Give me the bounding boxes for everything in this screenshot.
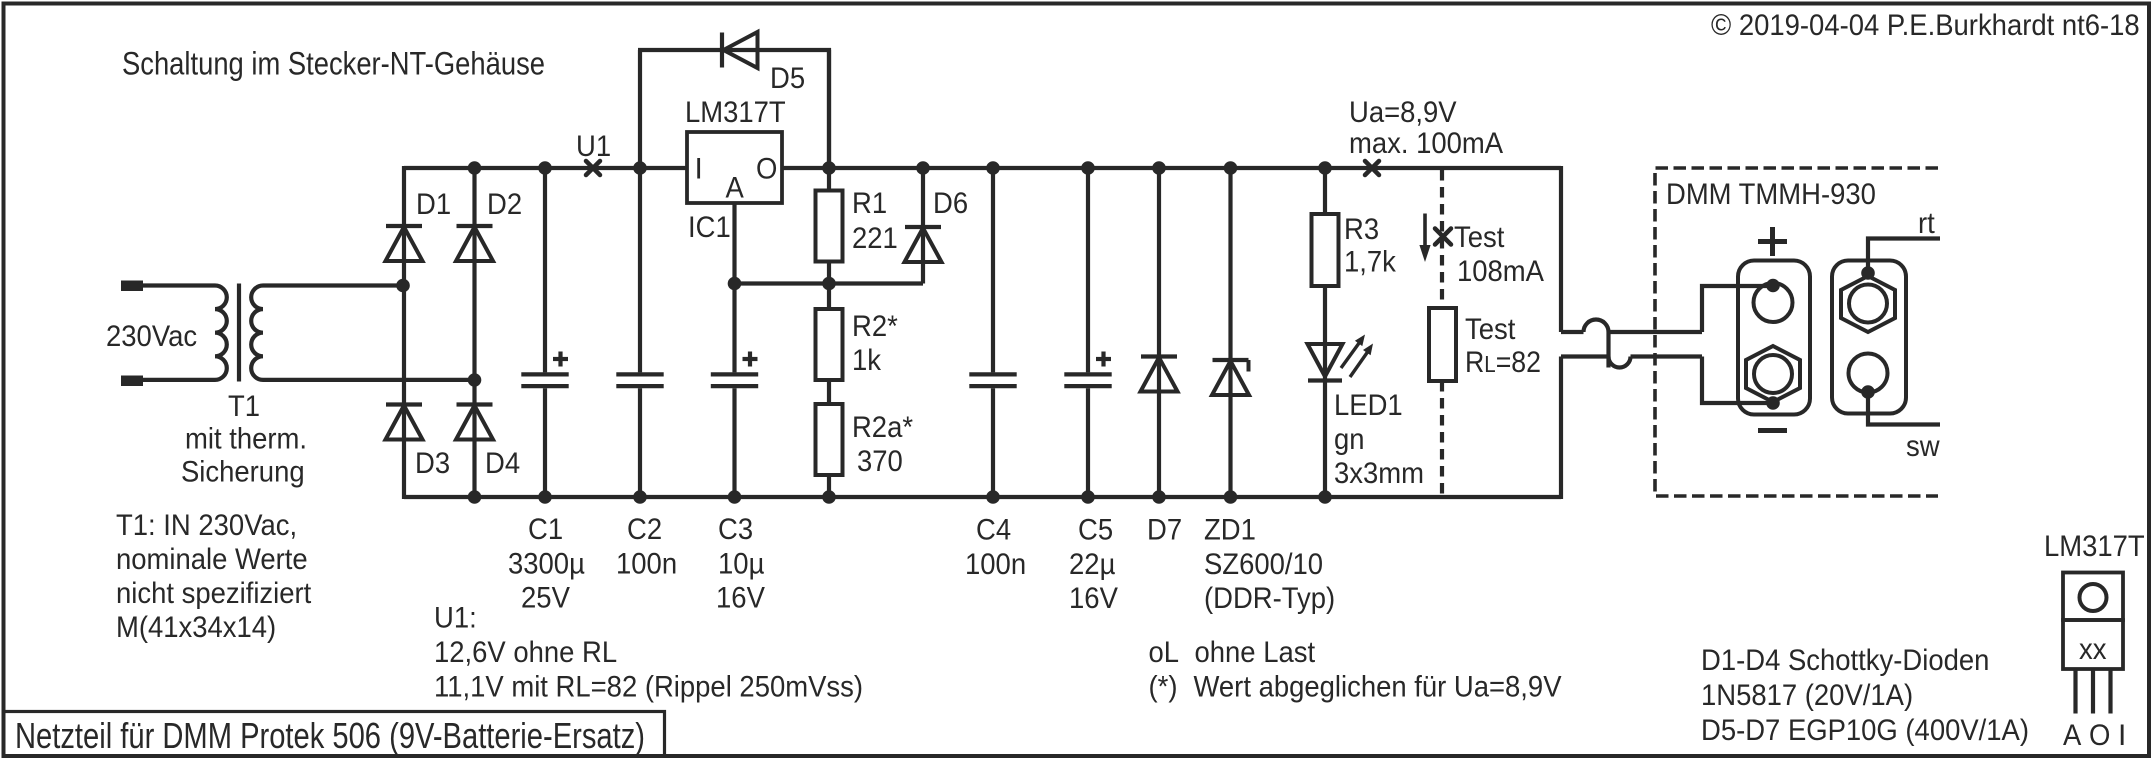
value C5 voltage: [1069, 582, 1118, 615]
zener diode ZD1: [1212, 360, 1249, 395]
wire C4 top: [991, 168, 995, 372]
pin label A (adjust): [726, 172, 744, 205]
resistor RL test load: [1429, 308, 1456, 381]
pin label O (output): [756, 153, 777, 186]
resistor R3: [1312, 214, 1339, 286]
junction R1/R2 ADJ node: [822, 277, 836, 291]
value C3 capacity: [718, 548, 764, 581]
note T1 spec line3: [116, 577, 312, 610]
junction C1 bottom rail: [538, 490, 552, 504]
svg-text:Sicherung: Sicherung: [181, 456, 305, 489]
svg-text:Netzteil für DMM Protek 506 (9: Netzteil für DMM Protek 506 (9V-Batterie…: [15, 715, 645, 756]
plug pair right body: [1832, 261, 1906, 414]
label Ua current: [1349, 127, 1503, 160]
label + polarity: [1758, 227, 1787, 256]
svg-text:Schaltung im Stecker-NT-Gehäus: Schaltung im Stecker-NT-Gehäuse: [122, 46, 545, 82]
svg-text:IC1: IC1: [688, 211, 731, 244]
svg-text:O: O: [2089, 719, 2110, 752]
plug right bottom socket: [1849, 354, 1888, 393]
svg-text:221: 221: [852, 222, 898, 255]
svg-text:Wert abgeglichen für Ua=8,9V: Wert abgeglichen für Ua=8,9V: [1194, 671, 1562, 704]
svg-text:A: A: [726, 172, 744, 205]
note U1 line3: [434, 671, 863, 704]
note U1 line1: [434, 602, 477, 635]
LED LED1 emission arrow 1: [1341, 335, 1365, 369]
svg-text:R2a*: R2a*: [852, 411, 913, 444]
twist crossing link: [1606, 332, 1610, 368]
wire - lead lower right: [1631, 354, 1703, 358]
svg-text:1N5817 (20V/1A): 1N5817 (20V/1A): [1701, 679, 1913, 712]
svg-text:Ua=8,9V: Ua=8,9V: [1349, 96, 1457, 129]
svg-text:O: O: [756, 153, 777, 186]
capacitor C3: [711, 352, 758, 387]
plug right top nut: [1841, 276, 1895, 332]
value R2: [852, 344, 882, 377]
wire D2-D4 branch: [472, 166, 476, 499]
wire D7 branch: [1157, 166, 1161, 499]
svg-text:LED1: LED1: [1334, 389, 1403, 422]
test branch dashed wire top: [1440, 170, 1444, 308]
diode D6: [905, 227, 942, 262]
pin label A (package): [2063, 719, 2081, 752]
junction C2 top rail: [633, 161, 647, 175]
svg-text:max. 100mA: max. 100mA: [1349, 127, 1503, 160]
note diodes line3: [1701, 714, 2029, 747]
LM317T package tab: [2063, 573, 2123, 621]
mains input terminal bottom: [121, 376, 143, 387]
svg-text:230Vac: 230Vac: [106, 320, 197, 353]
DMM enclosure dashed box: [1655, 168, 1938, 496]
label DMM TMMH-930: [1666, 178, 1876, 211]
label LM317T: [685, 96, 786, 129]
wire D5 horizontal: [638, 48, 831, 52]
junction LED1 bottom rail: [1318, 490, 1332, 504]
svg-text:16V: 16V: [1069, 582, 1118, 615]
svg-text:D4: D4: [485, 447, 520, 480]
junction C5 top rail: [1081, 161, 1095, 175]
svg-text:C2: C2: [627, 513, 662, 546]
twist hop lower arc: [1609, 357, 1631, 368]
capacitor C2: [616, 374, 663, 386]
diode D4: [456, 405, 493, 440]
wire C1 top: [543, 168, 547, 372]
wire - lead lower left: [1561, 354, 1609, 358]
junction ZD1 top rail: [1224, 161, 1238, 175]
svg-text:U1:: U1:: [434, 602, 477, 635]
LM317T package hole: [2080, 584, 2107, 611]
svg-text:108mA: 108mA: [1457, 255, 1544, 288]
svg-text:3300µ: 3300µ: [508, 548, 585, 581]
wire sw lead: [1868, 392, 1940, 425]
svg-text:1k: 1k: [852, 344, 882, 377]
resistor R2: [816, 309, 843, 380]
wire - lead to plug: [1702, 357, 1773, 404]
plug right top socket: [1849, 285, 1887, 323]
value LED1 size: [1334, 457, 1424, 490]
value R3: [1344, 246, 1397, 279]
wire D6 branch: [921, 166, 925, 284]
svg-text:SZ600/10: SZ600/10: [1204, 548, 1323, 581]
label U1: [576, 130, 611, 163]
wire R3 to LED1 to bottom rail: [1323, 286, 1327, 499]
svg-text:D3: D3: [415, 447, 450, 480]
junction R1 top rail: [822, 161, 836, 175]
svg-text:(*): (*): [1149, 671, 1178, 704]
svg-text:D2: D2: [487, 188, 522, 221]
wire C5 top: [1086, 168, 1090, 372]
label D6: [933, 187, 968, 220]
note diodes line2: [1701, 679, 1913, 712]
svg-text:xx: xx: [2079, 633, 2107, 666]
svg-text:sw: sw: [1906, 430, 1940, 463]
capacitor C1: [521, 352, 568, 387]
label ZD1: [1204, 514, 1256, 547]
value C3 voltage: [716, 582, 765, 615]
LM317T package leg I: [2108, 669, 2112, 714]
svg-text:Test: Test: [1465, 313, 1516, 346]
svg-text:100n: 100n: [616, 548, 677, 581]
terminal dot - plug: [1766, 396, 1780, 410]
svg-text:DMM TMMH-930: DMM TMMH-930: [1666, 178, 1876, 211]
wire right edge down to + lead: [1559, 166, 1563, 332]
label LED1: [1334, 389, 1403, 422]
svg-text:rt: rt: [1918, 207, 1935, 240]
plug left top socket: [1754, 283, 1793, 322]
diode D5 bar: [720, 33, 724, 68]
value R2a: [857, 445, 903, 478]
LM317T package leg A: [2073, 669, 2077, 714]
node Ua measurement mark: [1365, 161, 1379, 175]
twist hop upper arc: [1584, 320, 1609, 332]
label T1 note line1: [185, 423, 307, 456]
wire C3 bottom: [732, 388, 736, 497]
LED LED1 cathode bar: [1308, 378, 1342, 382]
wire C5 bottom: [1086, 388, 1090, 497]
junction C2 bottom rail: [633, 490, 647, 504]
diode D2: [456, 226, 493, 261]
svg-text:10µ: 10µ: [718, 548, 764, 581]
junction secondary top to D1/D3: [396, 279, 410, 293]
junction R3 top rail: [1318, 161, 1332, 175]
transformer T1 secondary winding: [251, 286, 474, 380]
svg-text:nicht spezifiziert: nicht spezifiziert: [116, 577, 312, 610]
svg-text:T1: T1: [228, 390, 260, 423]
svg-text:I: I: [2118, 719, 2126, 752]
label LM317T package: [2044, 530, 2145, 563]
value ZD1 note: [1204, 582, 1335, 615]
transformer T1 core: [237, 284, 241, 382]
junction D6 top rail: [916, 161, 930, 175]
svg-text:D1: D1: [416, 188, 451, 221]
junction D4 bottom rail: [468, 490, 482, 504]
wire D5 right riser: [827, 50, 831, 170]
LM317T package marking: [2079, 633, 2107, 666]
svg-text:A: A: [2063, 719, 2081, 752]
svg-text:R2*: R2*: [852, 310, 898, 343]
label sw: [1906, 430, 1940, 463]
label Test load: [1465, 313, 1516, 346]
terminal dot + plug: [1766, 279, 1780, 293]
svg-text:D5: D5: [770, 62, 805, 95]
svg-text:ZD1: ZD1: [1204, 514, 1256, 547]
svg-text:LM317T: LM317T: [685, 96, 786, 129]
svg-text:ohne Last: ohne Last: [1195, 636, 1316, 669]
test current mark: [1435, 229, 1451, 245]
label C3: [718, 513, 753, 546]
label D7: [1147, 514, 1182, 547]
wire ADJ node horizontal: [735, 281, 924, 285]
junction ADJ node: [728, 277, 742, 291]
wire C2 bottom: [638, 388, 642, 497]
resistor R2a: [816, 404, 843, 475]
label R2a*: [852, 411, 913, 444]
wire ADJ pin down: [732, 203, 736, 372]
terminal dot rt: [1861, 266, 1875, 280]
diode D3: [386, 405, 423, 440]
svg-text:22µ: 22µ: [1069, 548, 1115, 581]
junction C1 top rail: [538, 161, 552, 175]
label C2: [627, 513, 662, 546]
wire + lead upper right: [1609, 330, 1703, 334]
svg-text:nominale Werte: nominale Werte: [116, 543, 308, 576]
junction R2a bottom rail: [822, 490, 836, 504]
junction C4 bottom rail: [986, 490, 1000, 504]
test branch dashed wire bottom: [1440, 381, 1444, 495]
wire C4 bottom: [991, 388, 995, 497]
regulator IC1 LM317T body: [687, 132, 782, 203]
svg-text:gn: gn: [1334, 423, 1365, 456]
label 230Vac: [106, 320, 197, 353]
label C1: [528, 513, 563, 546]
LM317T package body: [2063, 620, 2123, 669]
label rt: [1918, 207, 1935, 240]
wire bottom rail: [404, 495, 1561, 499]
label D4: [485, 447, 520, 480]
label R2*: [852, 310, 898, 343]
label C5: [1078, 514, 1113, 547]
junction secondary bottom to D2/D4: [468, 373, 482, 387]
label D3: [415, 447, 450, 480]
value ZD1 type: [1204, 548, 1323, 581]
label D2: [487, 188, 522, 221]
label R1: [852, 187, 887, 220]
note T1 spec line1: [116, 509, 297, 542]
value C5 capacity: [1069, 548, 1115, 581]
svg-text:11,1V mit RL=82 (Rippel 250mVs: 11,1V mit RL=82 (Rippel 250mVss): [434, 671, 863, 704]
plug left bottom socket: [1754, 355, 1792, 393]
svg-text:(DDR-Typ): (DDR-Typ): [1204, 582, 1335, 615]
svg-text:U1: U1: [576, 130, 611, 163]
wire D1-D3 branch: [402, 166, 406, 499]
LM317T package leg O: [2091, 669, 2095, 714]
pin label I (input): [695, 153, 703, 186]
pin label I (package): [2118, 719, 2126, 752]
label Ua voltage: [1349, 96, 1457, 129]
value test current: [1457, 255, 1544, 288]
svg-text:3x3mm: 3x3mm: [1334, 457, 1424, 490]
svg-text:1,7k: 1,7k: [1344, 246, 1397, 279]
svg-text:D1-D4 Schottky-Dioden: D1-D4 Schottky-Dioden: [1701, 644, 1989, 677]
LED LED1 emission arrow 2: [1350, 344, 1373, 378]
svg-text:C4: C4: [976, 514, 1011, 547]
value R1: [852, 222, 898, 255]
svg-text:RL=82: RL=82: [1465, 346, 1541, 379]
wire rt lead: [1868, 239, 1940, 274]
junction D2 top rail: [468, 161, 482, 175]
svg-text:C1: C1: [528, 513, 563, 546]
plug pair left body: [1738, 261, 1810, 415]
svg-text:LM317T: LM317T: [2044, 530, 2145, 563]
svg-text:D7: D7: [1147, 514, 1182, 547]
wire top rail right (LM317 output to right edge): [782, 166, 1561, 170]
svg-text:R3: R3: [1344, 213, 1379, 246]
value LED1 colour: [1334, 423, 1365, 456]
value C2: [616, 548, 677, 581]
title box: [4, 712, 665, 757]
title text: [15, 715, 645, 756]
wire C1 bottom: [543, 388, 547, 497]
svg-text:25V: 25V: [521, 582, 570, 615]
svg-text:mit therm.: mit therm.: [185, 423, 307, 456]
svg-text:16V: 16V: [716, 582, 765, 615]
diode D7: [1141, 357, 1178, 392]
label D5: [770, 62, 805, 95]
junction D7 top rail: [1152, 161, 1166, 175]
svg-text:Test: Test: [1454, 221, 1505, 254]
LED LED1 triangle: [1308, 344, 1343, 377]
svg-text:T1: IN 230Vac,: T1: IN 230Vac,: [116, 509, 297, 542]
wire + lead upper left: [1561, 330, 1584, 334]
svg-text:R1: R1: [852, 187, 887, 220]
capacitor C4: [969, 374, 1016, 386]
svg-text:I: I: [695, 153, 703, 186]
note oL abbrev: [1149, 636, 1316, 669]
note U1 line2: [434, 636, 617, 669]
wire ZD1 branch: [1228, 166, 1232, 499]
label T1 note line2: [181, 456, 305, 489]
note asterisk: [1149, 671, 1562, 704]
svg-text:100n: 100n: [965, 548, 1026, 581]
wire R chain: [827, 48, 831, 499]
wire right edge bottom rail up to - lead: [1559, 357, 1563, 500]
wire C2 top: [638, 168, 642, 372]
label T1: [228, 390, 260, 423]
svg-text:D5-D7 EGP10G (400V/1A): D5-D7 EGP10G (400V/1A): [1701, 714, 2029, 747]
junction C3 bottom rail: [728, 490, 742, 504]
svg-text:370: 370: [857, 445, 903, 478]
resistor R1: [816, 191, 843, 262]
capacitor C5: [1064, 352, 1111, 387]
svg-text:M(41x34x14): M(41x34x14): [116, 611, 276, 644]
value RL: [1465, 346, 1541, 379]
label - polarity: [1758, 428, 1787, 433]
svg-text:C5: C5: [1078, 514, 1113, 547]
junction C5 bottom rail: [1081, 490, 1095, 504]
junction D7 bottom rail: [1152, 490, 1166, 504]
label IC1: [688, 211, 731, 244]
svg-text:oL: oL: [1149, 636, 1180, 669]
transformer T1 primary winding: [143, 286, 227, 380]
note T1 spec line4: [116, 611, 276, 644]
copyright: [1711, 9, 2140, 42]
value C1 voltage: [521, 582, 570, 615]
svg-text:© 2019-04-04 P.E.Burkhardt nt6: © 2019-04-04 P.E.Burkhardt nt6-18: [1711, 9, 2140, 42]
junction C4 top rail: [986, 161, 1000, 175]
wire + lead to plug: [1702, 286, 1773, 332]
heading note: [122, 46, 545, 82]
label R3: [1344, 213, 1379, 246]
diode D1: [386, 226, 423, 261]
svg-text:D6: D6: [933, 187, 968, 220]
value C1 capacity: [508, 548, 585, 581]
value C4: [965, 548, 1026, 581]
svg-text:C3: C3: [718, 513, 753, 546]
svg-text:12,6V ohne RL: 12,6V ohne RL: [434, 636, 617, 669]
diode D5 triangle: [724, 32, 758, 68]
label C4: [976, 514, 1011, 547]
terminal dot sw: [1861, 385, 1875, 399]
plug left bottom nut: [1746, 346, 1800, 402]
note diodes line1: [1701, 644, 1989, 677]
wire R3 top: [1323, 166, 1327, 216]
wire D5 left riser: [638, 50, 642, 170]
test current arrow: [1419, 214, 1430, 263]
label Test current: [1454, 221, 1505, 254]
note T1 spec line2: [116, 543, 308, 576]
junction ZD1 bottom rail: [1224, 490, 1238, 504]
pin label O (package): [2089, 719, 2110, 752]
node U1 measurement mark: [586, 161, 600, 175]
wire top rail left (D1 node to LM317 input): [404, 166, 687, 170]
label D1: [416, 188, 451, 221]
mains input terminal top: [121, 281, 143, 292]
